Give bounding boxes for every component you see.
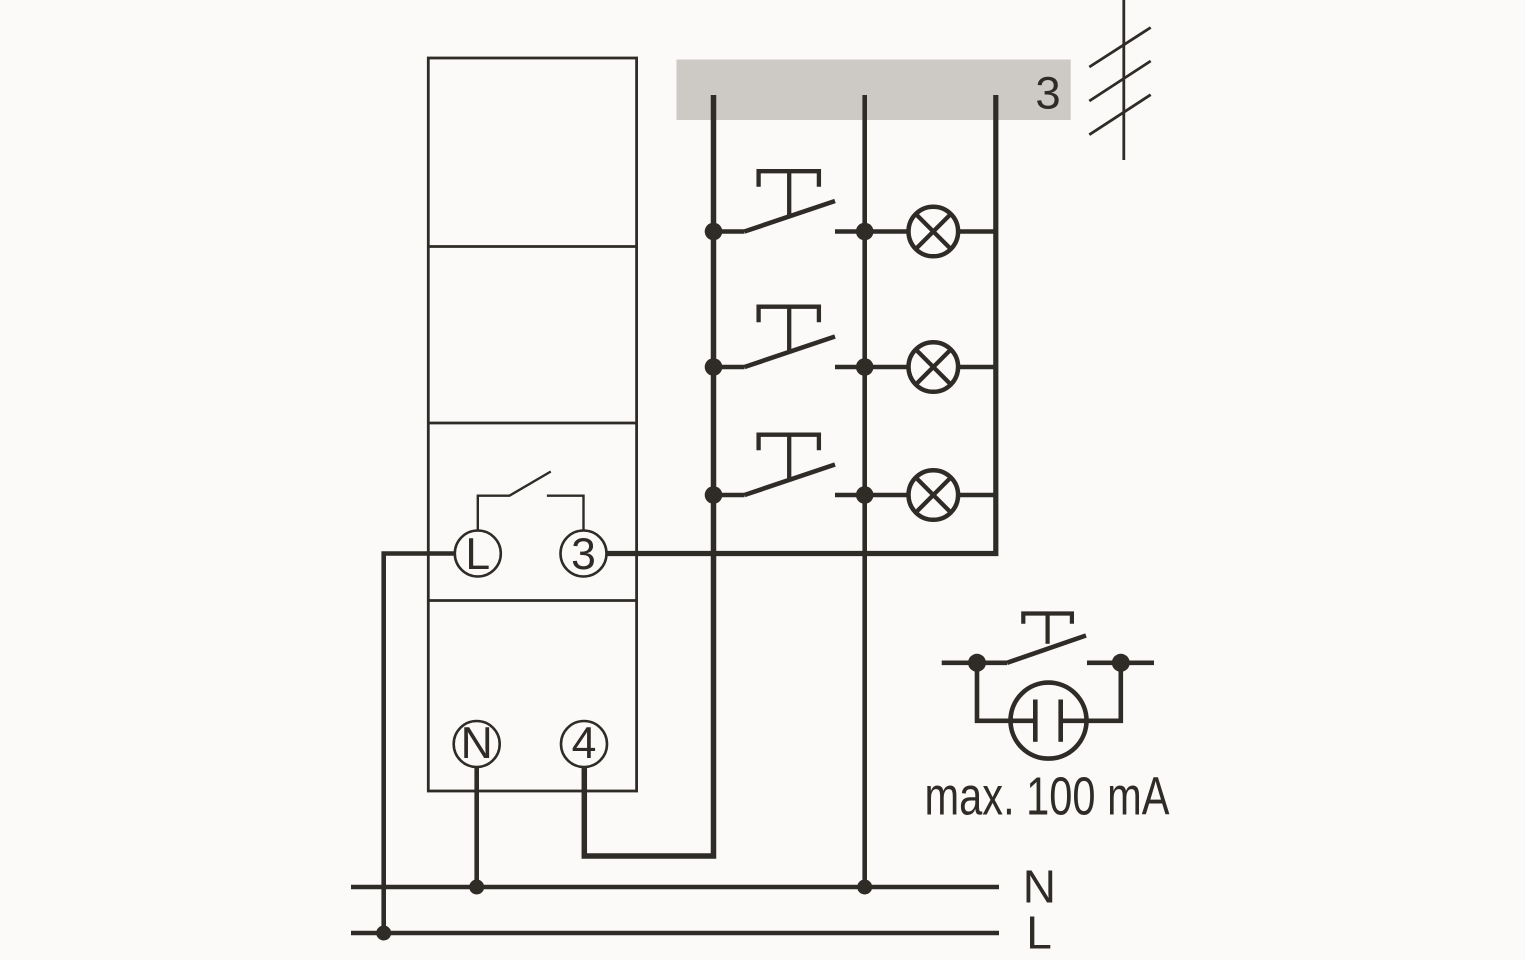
svg-text:N: N	[461, 719, 493, 768]
svg-text:max. 100 mA: max. 100 mA	[925, 767, 1170, 827]
svg-text:L: L	[465, 530, 490, 579]
svg-text:4: 4	[572, 719, 597, 768]
svg-text:3: 3	[1035, 67, 1060, 118]
svg-text:N: N	[1023, 861, 1056, 913]
svg-text:L: L	[1026, 906, 1052, 958]
svg-text:3: 3	[571, 530, 596, 579]
